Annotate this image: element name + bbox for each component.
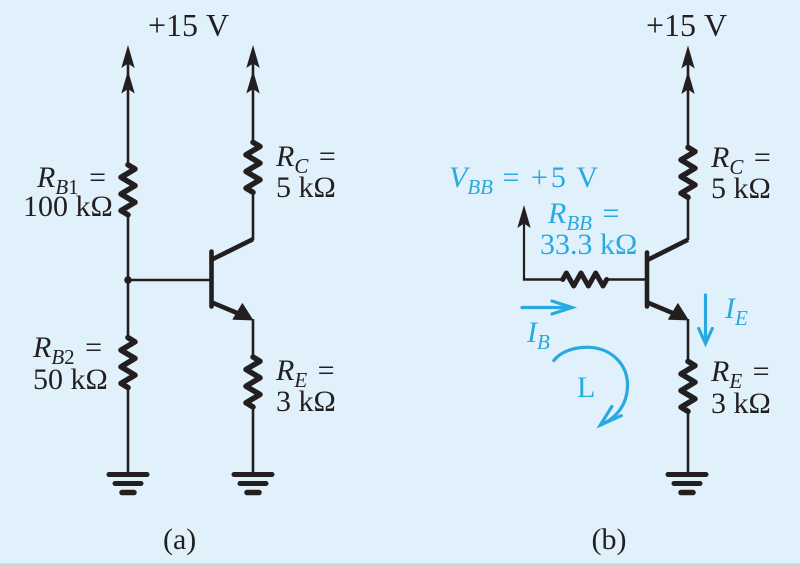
ground (a) right bbox=[234, 475, 272, 493]
caption (a) bbox=[163, 523, 196, 556]
label RC value (a) bbox=[275, 140, 336, 204]
label RBB value bbox=[540, 197, 637, 261]
svg-text:+15 V: +15 V bbox=[646, 7, 727, 43]
label +15 V (b) bbox=[646, 7, 727, 43]
wire right rail (a) bbox=[252, 52, 255, 144]
svg-text:3 kΩ: 3 kΩ bbox=[276, 385, 336, 418]
supply arrow (b) bbox=[681, 46, 694, 95]
label RC value (b) bbox=[710, 141, 771, 205]
resistor RE (b) bbox=[681, 361, 695, 411]
label VBB value bbox=[449, 161, 598, 199]
supply arrow (a) right bbox=[246, 45, 259, 94]
resistor RBB bbox=[563, 273, 607, 286]
bottom border line bbox=[0, 563, 800, 565]
wire RE to ground (a) bbox=[252, 405, 255, 473]
wire RB2 to ground (a) bbox=[127, 386, 130, 473]
loop arrow L bbox=[554, 347, 628, 425]
label L bbox=[577, 371, 595, 404]
label RE value (b) bbox=[710, 355, 771, 420]
label RE value (a) bbox=[275, 354, 336, 418]
label +15 V (a) bbox=[148, 7, 229, 43]
current arrow IB bbox=[522, 301, 572, 314]
label IB bbox=[526, 316, 550, 354]
node base junction (a) bbox=[124, 276, 132, 284]
wire base (a) bbox=[128, 279, 210, 282]
label RB1 value bbox=[23, 161, 113, 223]
svg-text:5 kΩ: 5 kΩ bbox=[711, 172, 771, 205]
svg-text:50 kΩ: 50 kΩ bbox=[33, 363, 108, 396]
svg-text:33.3 kΩ: 33.3 kΩ bbox=[540, 228, 637, 261]
label RB2 value bbox=[32, 331, 108, 396]
caption (b) bbox=[592, 523, 627, 556]
resistor RC (b) bbox=[681, 147, 695, 197]
wire RC to collector (a) bbox=[252, 190, 255, 240]
resistor RB1 bbox=[121, 165, 135, 215]
wire RE to ground (b) bbox=[687, 409, 690, 472]
transistor Q (b) bbox=[647, 240, 688, 320]
wire emitter to RE (b) bbox=[687, 319, 690, 363]
wire RBB to base (b) bbox=[605, 278, 645, 281]
resistor RB2 bbox=[121, 338, 135, 388]
wire emitter to RE (a) bbox=[252, 319, 255, 359]
wire left rail (a) bbox=[127, 52, 130, 166]
transistor Q (a) bbox=[212, 239, 254, 320]
svg-text:100 kΩ: 100 kΩ bbox=[23, 190, 113, 223]
resistor RE (a) bbox=[246, 357, 260, 407]
ground (a) left bbox=[109, 475, 147, 493]
wire VBB to RBB bbox=[523, 278, 565, 281]
supply arrow (a) left bbox=[121, 45, 134, 94]
source VBB arrow bbox=[517, 205, 530, 280]
svg-text:3 kΩ: 3 kΩ bbox=[711, 387, 771, 420]
svg-text:+15 V: +15 V bbox=[148, 7, 229, 43]
svg-text:(b): (b) bbox=[592, 523, 627, 556]
wire RB1 to node bbox=[127, 213, 130, 339]
ground (b) bbox=[668, 475, 706, 493]
label IE bbox=[724, 292, 748, 330]
wire RC to collector (b) bbox=[687, 195, 690, 240]
wire rail (b) bbox=[687, 52, 690, 149]
current arrow IE bbox=[699, 295, 713, 344]
svg-text:(a): (a) bbox=[163, 523, 196, 556]
resistor RC (a) bbox=[246, 142, 260, 192]
svg-text:5 kΩ: 5 kΩ bbox=[276, 171, 336, 204]
svg-text:L: L bbox=[577, 371, 595, 404]
